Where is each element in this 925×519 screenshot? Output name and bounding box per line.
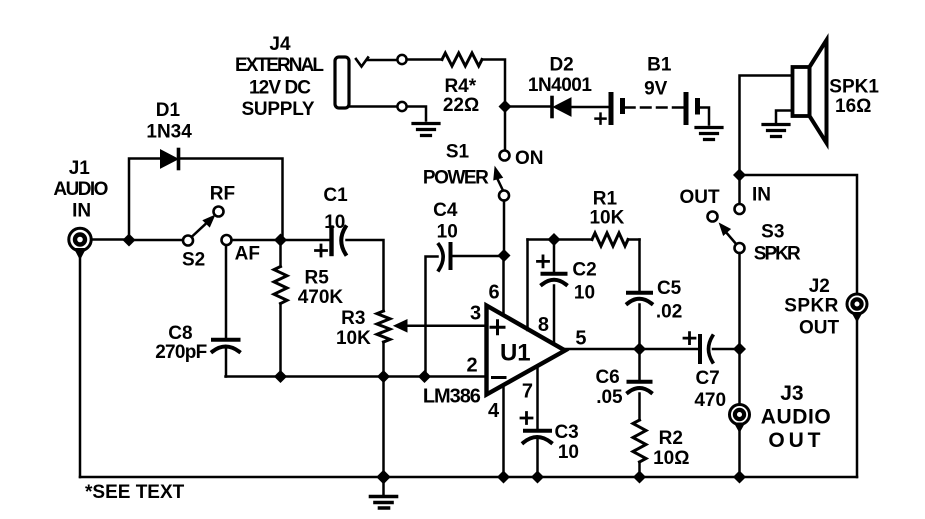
wire sleeve	[349, 107, 426, 121]
svg-text:AUDIO: AUDIO	[53, 179, 108, 200]
svg-text:5: 5	[575, 328, 586, 350]
svg-text:D2: D2	[549, 55, 573, 76]
jack J2	[784, 276, 867, 339]
capacitor C2	[538, 240, 597, 345]
svg-text:*SEE TEXT: *SEE TEXT	[85, 482, 185, 503]
wire	[698, 108, 710, 125]
svg-text:POWER: POWER	[423, 167, 489, 188]
resistor R4	[442, 53, 482, 116]
node C3 bus	[532, 471, 544, 483]
node AF junction	[275, 234, 287, 246]
node pin4 bus	[498, 471, 510, 483]
wire pin 6	[502, 256, 505, 317]
node speaker junction	[734, 169, 746, 181]
svg-text:SPK1: SPK1	[829, 77, 879, 98]
svg-text:7: 7	[522, 381, 533, 403]
wire	[80, 240, 126, 478]
svg-text:9V: 9V	[644, 79, 668, 100]
svg-text:R3: R3	[341, 308, 365, 329]
node supply junction	[499, 101, 511, 113]
svg-text:U1: U1	[500, 339, 531, 366]
svg-text:4: 4	[488, 400, 500, 422]
svg-text:C8: C8	[168, 323, 192, 344]
resistor R1	[589, 188, 628, 246]
svg-text:AF: AF	[235, 243, 260, 264]
svg-text:12V DC: 12V DC	[249, 77, 311, 98]
potentiometer R3	[336, 308, 407, 477]
svg-text:SPKR: SPKR	[754, 244, 801, 265]
svg-text:22Ω: 22Ω	[443, 95, 479, 116]
wire pin 4	[502, 386, 505, 478]
wire	[503, 201, 506, 252]
svg-text:R5: R5	[305, 268, 330, 289]
svg-text:3: 3	[470, 303, 481, 325]
svg-text:C1: C1	[323, 185, 348, 206]
op-amp U1	[423, 281, 587, 422]
svg-text:RF: RF	[210, 184, 235, 205]
svg-text:470: 470	[694, 390, 726, 411]
svg-text:8: 8	[538, 314, 549, 336]
capacitor C4	[426, 200, 505, 376]
wire output	[565, 348, 698, 351]
svg-text:R1: R1	[593, 188, 618, 209]
jack J4	[235, 34, 368, 120]
svg-text:2: 2	[466, 355, 477, 377]
svg-text:1N4001: 1N4001	[528, 75, 592, 96]
speaker SPK1	[740, 40, 880, 171]
svg-text:OUT: OUT	[768, 429, 820, 452]
switch S2	[182, 184, 260, 271]
wire	[571, 106, 609, 109]
svg-text:C7: C7	[695, 368, 719, 389]
wire	[482, 60, 505, 103]
svg-text:IN: IN	[72, 200, 91, 221]
svg-text:10: 10	[324, 212, 345, 233]
svg-text:C3: C3	[554, 422, 578, 443]
wire pin 3	[405, 325, 487, 328]
svg-text:R2: R2	[659, 428, 683, 449]
capacitor C3	[521, 366, 579, 477]
jack J3	[730, 382, 831, 452]
svg-text:ON: ON	[515, 148, 544, 169]
svg-text:OUT: OUT	[799, 317, 840, 338]
svg-text:16Ω: 16Ω	[835, 96, 871, 117]
svg-text:J3: J3	[780, 382, 803, 405]
node C7 junction	[734, 343, 746, 355]
svg-text:IN: IN	[752, 185, 771, 206]
svg-text:1N34: 1N34	[146, 122, 192, 143]
node R5 bottom	[275, 371, 287, 383]
svg-text:10: 10	[558, 442, 579, 463]
svg-text:R4*: R4*	[444, 76, 476, 97]
wire	[382, 477, 385, 494]
wire pin 2 rail	[226, 375, 487, 378]
node tip terminal	[397, 55, 406, 64]
wire	[740, 175, 858, 477]
svg-text:LM386: LM386	[423, 386, 481, 408]
wire	[510, 105, 552, 108]
svg-text:10: 10	[437, 221, 458, 242]
svg-text:10: 10	[574, 283, 595, 304]
ground	[413, 124, 439, 136]
node output junction	[634, 343, 646, 355]
capacitor C1	[285, 185, 384, 311]
node input junction	[123, 234, 135, 246]
svg-text:C4: C4	[433, 200, 458, 221]
svg-text:B1: B1	[647, 55, 672, 76]
resistor R5	[274, 244, 343, 373]
svg-text:J1: J1	[69, 158, 91, 179]
svg-text:J2: J2	[809, 276, 830, 297]
svg-text:J4: J4	[269, 34, 291, 55]
svg-text:C6: C6	[595, 367, 619, 388]
node ground bus	[377, 471, 390, 484]
ground	[763, 125, 789, 137]
capacitor C5	[628, 278, 683, 349]
svg-text:S3: S3	[761, 222, 784, 243]
svg-text:S1: S1	[446, 141, 470, 162]
switch S1	[423, 111, 544, 201]
svg-text:S2: S2	[182, 250, 205, 271]
svg-text:10Ω: 10Ω	[653, 448, 689, 469]
wire	[368, 59, 398, 62]
battery B1	[596, 55, 698, 124]
wire	[232, 239, 277, 242]
node V+ junction	[498, 250, 510, 262]
node J3 bus	[734, 471, 746, 483]
node R2 bus	[634, 471, 646, 483]
jack J1	[53, 158, 108, 259]
resistor R2	[633, 420, 689, 477]
capacitor C6	[595, 349, 651, 420]
svg-text:C5: C5	[657, 278, 682, 299]
ground main	[371, 497, 397, 509]
node C4 bottom	[419, 371, 431, 383]
wire pin 8	[526, 240, 529, 331]
switch S3	[679, 175, 801, 265]
svg-text:6: 6	[489, 281, 500, 303]
wire	[638, 240, 641, 292]
svg-text:10K: 10K	[589, 208, 624, 229]
node C2 junction	[548, 234, 560, 246]
svg-text:.05: .05	[596, 387, 623, 408]
node R3 bottom	[378, 371, 390, 383]
wire D1 branch	[129, 159, 283, 237]
ground	[696, 128, 722, 140]
wire	[738, 253, 741, 477]
node sleeve terminal	[397, 102, 406, 111]
svg-text:EXTERNAL: EXTERNAL	[235, 55, 324, 76]
wire	[407, 58, 442, 61]
capacitor C7	[684, 333, 740, 411]
svg-text:470K: 470K	[298, 287, 344, 308]
svg-text:270pF: 270pF	[155, 342, 207, 363]
wire ground bus	[80, 476, 857, 479]
diode D2	[528, 55, 592, 117]
capacitor C8	[155, 246, 239, 377]
svg-text:10K: 10K	[336, 328, 371, 349]
wire top rail	[528, 238, 640, 241]
svg-text:AUDIO: AUDIO	[761, 406, 831, 429]
diode D1	[146, 100, 192, 168]
svg-text:SUPPLY: SUPPLY	[242, 99, 315, 120]
svg-text:.02: .02	[656, 302, 682, 323]
svg-text:C2: C2	[572, 259, 596, 280]
svg-text:SPKR: SPKR	[784, 295, 838, 316]
svg-text:D1: D1	[156, 100, 181, 121]
wire	[134, 239, 184, 242]
svg-text:OUT: OUT	[679, 187, 720, 208]
